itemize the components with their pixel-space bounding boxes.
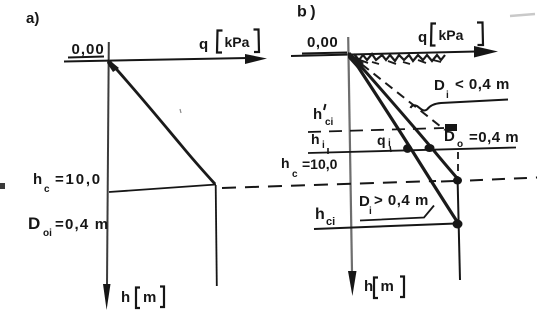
svg-text:h: h: [364, 278, 373, 295]
svg-text:ci: ci: [326, 216, 335, 228]
q [kPa] label (panel a): [199, 30, 259, 54]
hc depth line (panel a): [109, 185, 216, 193]
svg-text:h: h: [121, 289, 130, 306]
svg-text:D: D: [28, 214, 40, 233]
label hc = 10,0 (panel a): [33, 171, 102, 195]
label hi (panel b): [311, 131, 325, 151]
marker dot on hi line right (panel b): [425, 144, 435, 152]
svg-text:i: i: [446, 90, 449, 101]
label Doi = 0,4 m (panel a): [28, 214, 109, 239]
svg-text:0,00: 0,00: [72, 41, 105, 58]
svg-text:i: i: [322, 140, 325, 151]
svg-text:m: m: [143, 289, 156, 306]
svg-text:a): a): [26, 10, 39, 27]
label hci (panel b): [315, 206, 335, 228]
label 0,00 (panel b): [302, 34, 347, 54]
label qi (panel b): [377, 132, 391, 152]
svg-text:=10,0: =10,0: [302, 156, 338, 172]
dashed diagonal Di < 0,4 m (panel b): [350, 55, 445, 130]
leader line under Di label (panel b): [411, 100, 509, 111]
svg-text:D: D: [444, 128, 455, 145]
right vertical line dashed upper part (panel b): [457, 152, 459, 174]
svg-text:h: h: [281, 155, 290, 171]
svg-text:h: h: [315, 206, 325, 223]
thick diagonal line A (panel b): [350, 54, 457, 178]
svg-text:q: q: [418, 29, 427, 46]
svg-text:c: c: [44, 184, 50, 195]
smudge top right: [510, 14, 535, 16]
h [m] label (panel b): [364, 277, 404, 299]
q [kPa] label (panel b): [418, 23, 483, 47]
q axis (panel a): [64, 54, 267, 64]
svg-text:=10,0: =10,0: [55, 171, 102, 188]
svg-text:=0,4 m: =0,4 m: [55, 216, 109, 233]
junction dot lower (panel b): [453, 220, 463, 229]
h axis vertical (panel b): [348, 37, 357, 296]
svg-text:m: m: [381, 278, 394, 295]
right vertical line solid (panel b): [458, 176, 461, 280]
q axis (panel b): [291, 46, 498, 58]
svg-text:h: h: [313, 106, 322, 123]
hi level line long (panel b): [308, 148, 516, 155]
origin ink blob (panel b): [348, 52, 364, 68]
label h'ci (panel b): [313, 104, 334, 128]
svg-text:=0,4 m: =0,4 m: [469, 129, 519, 146]
load distribution diagonal (panel a): [110, 62, 215, 184]
origin ink blob (panel a): [107, 59, 119, 72]
svg-text:h: h: [311, 131, 320, 147]
svg-text:D: D: [434, 77, 445, 94]
svg-text:o: o: [457, 139, 463, 150]
svg-text:ci: ci: [325, 117, 334, 128]
svg-text:i: i: [369, 206, 372, 217]
svg-text:< 0,4 m: < 0,4 m: [455, 76, 510, 93]
vertical drop at diagram end (panel a): [216, 185, 217, 286]
boxed label Di > 0,4 m (panel b): [359, 192, 434, 221]
label Di < 0,4 m (panel b): [434, 76, 510, 101]
stray pen mark (panel a): [180, 109, 181, 113]
svg-text:b): b): [297, 4, 319, 21]
h axis vertical (panel a): [103, 42, 111, 310]
svg-text:0,00: 0,00: [307, 34, 338, 51]
junction dot upper (panel b): [453, 177, 462, 185]
long dashed hc level line: [222, 178, 537, 189]
h [m] label (panel a): [121, 287, 164, 309]
label hc = 10,0 (panel b): [281, 155, 338, 180]
panel label a): [26, 10, 39, 27]
svg-text:h: h: [33, 171, 42, 188]
hci level line (panel b): [314, 224, 456, 230]
svg-text:kPa: kPa: [439, 27, 464, 43]
thick diagonal line B (panel b): [349, 53, 458, 223]
svg-text:> 0,4 m: > 0,4 m: [374, 192, 429, 209]
edge artifact left: [0, 183, 5, 189]
svg-text:c: c: [292, 169, 298, 180]
svg-text:q: q: [199, 36, 208, 53]
svg-text:q: q: [377, 132, 386, 148]
svg-text:kPa: kPa: [225, 34, 250, 50]
square marker end of dashed diagonal (panel b): [445, 124, 457, 131]
ground surface hatching (panel b): [354, 54, 445, 64]
svg-text:oi: oi: [43, 228, 52, 239]
marker dot on hi line left (panel b): [403, 144, 412, 153]
h'ci dashed level line (panel b): [308, 128, 444, 132]
label 0,00 (panel a): [68, 41, 105, 58]
panel label b): [297, 4, 319, 21]
label Do = 0,4 m (panel b): [444, 128, 519, 150]
